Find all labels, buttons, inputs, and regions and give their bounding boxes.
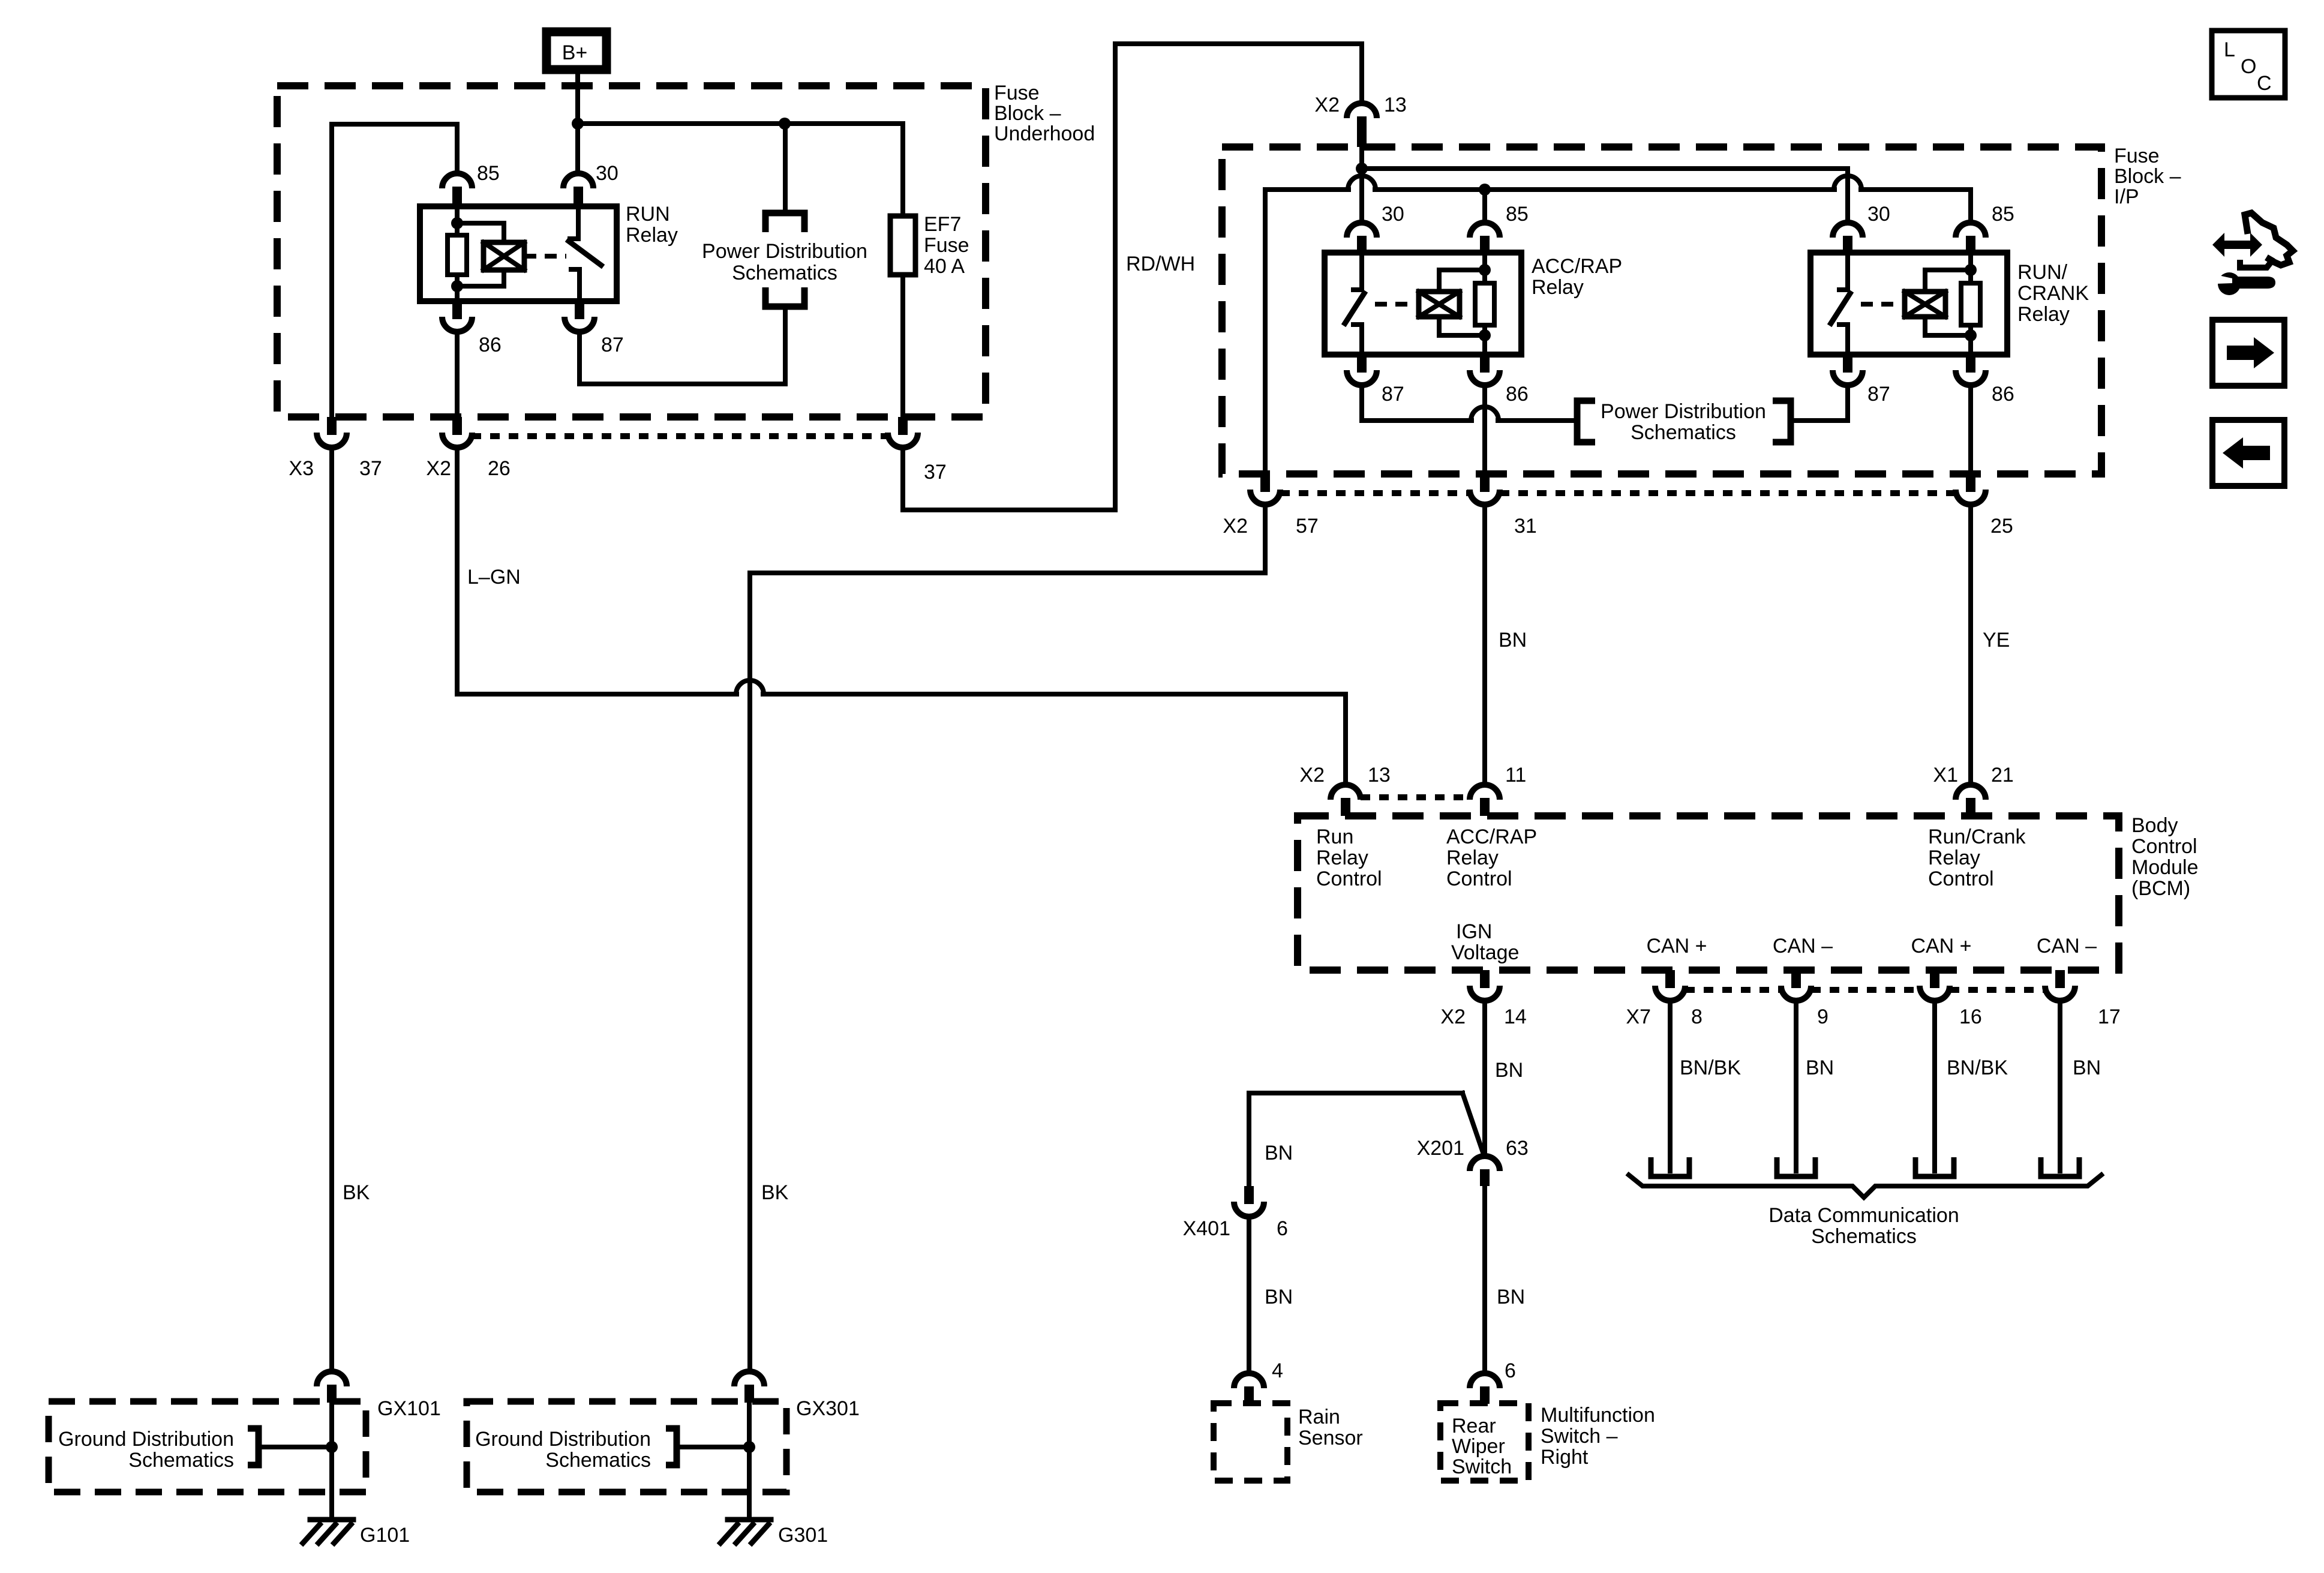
connector pin 31 (1470, 474, 1500, 505)
relay K3 pin 86 connector (1956, 355, 1986, 385)
svg-text:Voltage: Voltage (1451, 941, 1519, 964)
svg-text:RD/WH: RD/WH (1126, 253, 1195, 275)
component Rear Wiper Switch dashed box (1440, 1403, 1529, 1481)
svg-text:CAN +: CAN + (1911, 935, 1971, 957)
ground distribution GX301 dashed box (467, 1401, 786, 1492)
switch contact RUN relay (569, 206, 601, 301)
svg-text:86: 86 (1992, 383, 2014, 406)
svg-text:16: 16 (1959, 1005, 1982, 1028)
ground distribution GX101 dashed box (49, 1401, 366, 1492)
wire BN X401 to rain sensor (1247, 1217, 1251, 1371)
wire riser to connector X2-57 (1263, 190, 1268, 474)
svg-text:RUN/: RUN/ (2017, 261, 2068, 284)
wire CAN BN/BK at 2784 (1668, 1001, 1673, 1171)
label Body Control Module (BCM) (2131, 814, 2199, 900)
svg-text:Multifunction: Multifunction (1541, 1404, 1655, 1427)
svg-text:85: 85 (1506, 203, 1529, 226)
terminal data link connector (1651, 1157, 1689, 1176)
relay U1 pin 86 connector (442, 301, 472, 332)
connector X2 pin 57 (1250, 474, 1280, 505)
wire CAN BN at 2994 (1794, 1001, 1798, 1171)
svg-text:13: 13 (1368, 764, 1391, 786)
connector pin 11 BCM (1470, 785, 1500, 816)
power symbol B+ battery feed (547, 32, 606, 70)
svg-text:Sensor: Sensor (1298, 1427, 1363, 1449)
label EF7 Fuse 40 A (924, 213, 969, 278)
connector X2 pin 14 (1470, 970, 1500, 1001)
svg-text:Relay: Relay (626, 224, 678, 247)
brace data communication group (1627, 1173, 2103, 1197)
actuator dashed link RUN relay (524, 254, 566, 259)
svg-text:26: 26 (488, 457, 511, 480)
relay K2 ACC/RAP body (1325, 253, 1521, 355)
svg-text:Power Distribution: Power Distribution (1601, 400, 1766, 423)
svg-text:Fuse: Fuse (2114, 145, 2160, 167)
resistor R2 inside ACC/RAP relay (1475, 283, 1494, 325)
svg-text:85: 85 (1992, 203, 2014, 226)
svg-text:40 A: 40 A (924, 255, 965, 278)
connector X201 pin 63 (1470, 1156, 1500, 1186)
fuse EF7 40 A (890, 124, 915, 417)
relay K3 pin 87 connector (1833, 355, 1863, 385)
label RUN/CRANK Relay (2017, 261, 2089, 326)
label Fuse Block - I/P (2114, 145, 2181, 208)
svg-text:Run: Run (1316, 825, 1353, 848)
coil branch wire ACC/RAP (1482, 253, 1487, 355)
svg-text:Block –: Block – (994, 102, 1061, 125)
svg-text:Switch –: Switch – (1541, 1425, 1618, 1448)
label Rain Sensor (1298, 1406, 1363, 1449)
terminal data link connector (1777, 1157, 1815, 1176)
svg-text:37: 37 (359, 457, 382, 480)
wire RUN/CRANK 87 to bracket (1791, 386, 1848, 421)
off-page reference Ground Distribution Schematics right (475, 1428, 749, 1472)
svg-text:Rain: Rain (1298, 1406, 1340, 1428)
relay K3 RUN/CRANK pin 85 connector (1956, 223, 1986, 253)
wire X2-57 to ground riser (750, 505, 1265, 1369)
fuse block - underhood dashed enclosure (277, 86, 986, 417)
wire crossover hop over BK riser (736, 680, 764, 694)
connector pin 9 (1781, 970, 1811, 1001)
svg-text:BN: BN (1265, 1286, 1293, 1308)
svg-text:21: 21 (1991, 764, 2014, 786)
svg-text:Schematics: Schematics (1811, 1225, 1917, 1248)
svg-text:GX101: GX101 (377, 1397, 441, 1420)
relay K2 ACC/RAP pin 30 connector (1347, 223, 1377, 253)
svg-text:BN: BN (1499, 629, 1527, 652)
svg-text:Relay: Relay (1316, 846, 1368, 869)
relay U1 RUN Relay body (420, 206, 617, 301)
svg-text:X3: X3 (289, 457, 314, 480)
svg-text:37: 37 (924, 461, 947, 484)
wire B+ stem to junction and relay pin 30 (575, 74, 580, 171)
svg-text:X2: X2 (1299, 764, 1325, 786)
svg-text:30: 30 (1382, 203, 1404, 226)
svg-text:Block –: Block – (2114, 165, 2181, 188)
svg-text:B+: B+ (562, 41, 588, 64)
svg-text:Data Communication: Data Communication (1768, 1204, 1959, 1227)
wire BN from 31 to BCM 11 (1482, 505, 1487, 782)
module U2 Body Control Module dashed enclosure (1298, 816, 2119, 970)
wire branch to X401 rain sensor (1249, 1093, 1483, 1186)
ground G101 symbol (303, 1520, 353, 1543)
connector pin 16 (1920, 970, 1950, 1001)
svg-text:X2: X2 (1314, 94, 1340, 116)
label X2 13 (1299, 764, 1390, 786)
node junctions ACC/RAP coil (1479, 264, 1491, 276)
wire crossover hop at X2-13 riser (1348, 176, 1376, 190)
svg-text:X2: X2 (1440, 1005, 1466, 1028)
svg-text:L: L (2224, 38, 2235, 61)
switch contact ACC/RAP relay (1345, 253, 1364, 355)
svg-text:Module: Module (2131, 856, 2199, 879)
wire branch to ACC/RAP pin 85 (1482, 190, 1487, 220)
svg-text:CAN –: CAN – (1773, 935, 1833, 957)
actuator dashed link RUN/CRANK (1861, 302, 1899, 307)
off-page reference Power Distribution Schematics (underhood) (702, 124, 867, 307)
label X2 14 (1440, 1005, 1526, 1028)
label RUN Relay (626, 203, 678, 247)
icon arrow left box (2212, 420, 2284, 486)
connector GX101 (317, 1371, 347, 1403)
label Data Communication Schematics (1768, 1204, 1959, 1248)
terminal data link connector (2041, 1157, 2079, 1176)
svg-text:O: O (2241, 55, 2256, 78)
svg-text:Power Distribution: Power Distribution (702, 240, 867, 263)
wire pin 86 to connector X2-26 (455, 332, 460, 417)
label Multifunction Switch - Right (1541, 1404, 1655, 1469)
svg-text:Relay: Relay (1928, 846, 1980, 869)
wire crossover hop over pin 86 wire (1471, 407, 1499, 421)
relay U1 RUN Relay pin 85 connector (442, 173, 472, 206)
connector rear wiper pin 6 (1470, 1373, 1500, 1404)
svg-text:BN/BK: BN/BK (1947, 1056, 2008, 1079)
svg-text:(BCM): (BCM) (2131, 877, 2190, 900)
node coil top junction (451, 217, 463, 229)
wire X2-13 into bus (1359, 147, 1364, 220)
wire YE from 25 to BCM X1-21 (1968, 505, 1973, 782)
node coil bottom junction (451, 280, 463, 292)
svg-text:6: 6 (1277, 1217, 1288, 1240)
label IGN Voltage (1451, 920, 1519, 964)
svg-text:BN: BN (1497, 1286, 1525, 1308)
svg-text:Schematics: Schematics (545, 1449, 651, 1472)
wire GX101 through box (329, 1403, 334, 1520)
node junction ACC/RAP 85 branch (1479, 184, 1491, 196)
connector pin 25 (1956, 474, 1986, 505)
label X2 26 (426, 457, 510, 480)
wire BN from X2-14 down to X201 (1482, 1001, 1487, 1154)
svg-text:C: C (2257, 72, 2272, 95)
svg-text:CAN –: CAN – (2037, 935, 2097, 957)
svg-text:Switch: Switch (1452, 1455, 1512, 1478)
svg-text:GX301: GX301 (796, 1397, 860, 1420)
svg-text:Control: Control (1928, 867, 1994, 890)
relay K3 RUN/CRANK pin 30 connector (1833, 223, 1863, 253)
icon arrow right box (2212, 320, 2284, 386)
svg-text:9: 9 (1817, 1005, 1828, 1028)
svg-text:RUN: RUN (626, 203, 670, 226)
label X401 6 (1183, 1217, 1288, 1240)
svg-text:X201: X201 (1417, 1137, 1464, 1160)
svg-text:ACC/RAP: ACC/RAP (1446, 825, 1537, 848)
component Rain Sensor dashed box (1214, 1403, 1287, 1481)
svg-text:Underhood: Underhood (994, 122, 1095, 145)
relay K2 pin 87 connector (1347, 355, 1377, 385)
svg-text:BN: BN (1265, 1142, 1293, 1164)
svg-text:X1: X1 (1933, 764, 1958, 786)
svg-text:11: 11 (1505, 764, 1526, 786)
wire RD/WH from EF7 to fuse block I/P (903, 44, 1362, 510)
svg-text:13: 13 (1384, 94, 1407, 116)
svg-text:Wiper: Wiper (1452, 1435, 1505, 1458)
coil branch wire RUN/CRANK (1968, 253, 1973, 355)
svg-text:87: 87 (1382, 383, 1404, 406)
connector X1 pin 21 BCM (1956, 785, 1986, 816)
svg-text:YE: YE (1983, 629, 2010, 652)
label X201 63 (1417, 1137, 1529, 1160)
label ACC/RAP Relay (1532, 255, 1622, 299)
label X7 8 (1626, 1005, 1703, 1028)
svg-text:CRANK: CRANK (2017, 282, 2089, 305)
label Run Relay Control (1316, 825, 1382, 890)
svg-text:86: 86 (1506, 383, 1529, 406)
svg-text:X401: X401 (1183, 1217, 1230, 1240)
relay K2 pin 86 connector (1470, 355, 1500, 385)
wire ACC/RAP 86 to connector 31 (1482, 386, 1487, 474)
svg-text:6: 6 (1505, 1359, 1516, 1382)
wire CAN BN/BK at 3225 (1932, 1001, 1937, 1171)
svg-text:L–GN: L–GN (467, 566, 521, 589)
svg-text:Body: Body (2131, 814, 2178, 837)
svg-text:30: 30 (596, 162, 618, 185)
actuator dashed link ACC/RAP (1375, 302, 1413, 307)
wire bus to RUN/CRANK relay pin 30 (1362, 169, 1848, 220)
wire L-GN from X2-26 to BCM X2-13 (457, 448, 1346, 782)
wire ACC/RAP 87 to power distribution bracket (1362, 386, 1574, 421)
relay K2 ACC/RAP pin 85 connector (1470, 223, 1500, 253)
svg-text:Schematics: Schematics (1631, 421, 1736, 444)
svg-text:BN: BN (1806, 1056, 1834, 1079)
svg-text:I/P: I/P (2114, 185, 2139, 208)
svg-text:4: 4 (1272, 1359, 1283, 1382)
resistor R3 inside RUN/CRANK relay (1961, 283, 1980, 325)
icon LOC legend box (2212, 31, 2285, 98)
svg-text:17: 17 (2098, 1005, 2121, 1028)
svg-text:8: 8 (1691, 1005, 1703, 1028)
off-page reference Power Distribution Schematics (I/P) (1577, 400, 1791, 444)
node junction GX301 (743, 1441, 755, 1453)
svg-text:Control: Control (1316, 867, 1382, 890)
svg-text:BN: BN (1495, 1059, 1523, 1082)
connector X2 pin 26 (442, 417, 472, 448)
svg-text:Ground Distribution: Ground Distribution (58, 1428, 234, 1451)
node junctions RUN/CRANK coil (1965, 264, 1977, 276)
svg-text:X2: X2 (1223, 515, 1248, 538)
connector row dotted line underhood (472, 433, 888, 439)
connector row dotted line BCM top (1361, 794, 1471, 800)
connector rain sensor pin 4 (1234, 1373, 1264, 1404)
node junction to power distribution stem (779, 118, 791, 130)
svg-text:Fuse: Fuse (924, 234, 969, 257)
connector GX301 (734, 1371, 764, 1403)
label Run/Crank Relay Control (1928, 825, 2026, 890)
resistor R1 inside RUN relay (448, 235, 467, 275)
svg-text:63: 63 (1506, 1137, 1529, 1160)
connector X7 pin 8 (1655, 970, 1685, 1001)
connector X401 pin 6 (1234, 1186, 1264, 1217)
svg-text:25: 25 (1990, 515, 2013, 538)
svg-text:Schematics: Schematics (732, 262, 837, 284)
coil K3 of RUN/CRANK relay (1905, 292, 1945, 317)
label X3 37 (289, 457, 382, 480)
svg-text:Fuse: Fuse (994, 82, 1040, 104)
svg-text:85: 85 (477, 162, 500, 185)
svg-text:87: 87 (1867, 383, 1890, 406)
label X2 13 (1314, 94, 1406, 116)
svg-text:Control: Control (2131, 835, 2197, 858)
node junction feed RUN/CRANK 30 (1356, 163, 1368, 175)
connector pin 17 (2045, 970, 2075, 1001)
coil K2 connections (1439, 270, 1485, 335)
wire RUN/CRANK 86 to connector 25 (1968, 386, 1973, 474)
terminal data link connector (1915, 1157, 1954, 1176)
wire relay 85 feed to X3-37 (332, 124, 457, 417)
label ACC/RAP Relay Control (1446, 825, 1537, 890)
relay U1 RUN Relay pin 30 connector (563, 173, 593, 206)
wire CAN BN at 3434 (2058, 1001, 2062, 1171)
svg-text:31: 31 (1514, 515, 1537, 538)
svg-text:14: 14 (1504, 1005, 1527, 1028)
svg-text:30: 30 (1867, 203, 1890, 226)
wire pin 87 to power distribution bracket (580, 307, 785, 384)
node junction B+ distribution (572, 118, 584, 130)
svg-text:Run/Crank: Run/Crank (1928, 825, 2026, 848)
svg-text:Control: Control (1446, 867, 1512, 890)
svg-text:BN/BK: BN/BK (1680, 1056, 1741, 1079)
relay U1 pin 87 connector (565, 301, 594, 332)
connector fuse EF7 output pin 37 (888, 417, 918, 448)
svg-text:Schematics: Schematics (128, 1449, 234, 1472)
off-page reference Ground Distribution Schematics left (58, 1428, 332, 1472)
svg-text:CAN +: CAN + (1646, 935, 1707, 957)
node junction GX101 (326, 1441, 338, 1453)
fuse block - I/P dashed enclosure (1222, 147, 2101, 474)
svg-text:X7: X7 (1626, 1005, 1651, 1028)
switch contact RUN/CRANK relay (1831, 253, 1850, 355)
svg-text:87: 87 (601, 334, 624, 356)
connector X3 pin 37 (317, 417, 347, 448)
wire BN X201 to rear wiper switch (1482, 1186, 1487, 1371)
wire crossover hop at RUN/CRANK 30 riser (1834, 176, 1861, 190)
svg-text:Relay: Relay (1532, 276, 1584, 299)
svg-text:Ground Distribution: Ground Distribution (475, 1428, 651, 1451)
relay K3 RUN/CRANK body (1810, 253, 2007, 355)
label Fuse Block - Underhood (994, 82, 1095, 145)
coil K2 of ACC/RAP relay (1419, 292, 1460, 317)
connector row dotted line CAN (1685, 987, 2045, 993)
svg-text:G301: G301 (778, 1524, 828, 1547)
coil K3 connections (1925, 270, 1971, 335)
label X2 57 (1223, 515, 1318, 538)
svg-text:G101: G101 (360, 1524, 410, 1547)
wire BK X3-37 to GX101 (329, 448, 334, 1369)
svg-text:BK: BK (761, 1181, 789, 1204)
connector X2 pin 13 BCM (1331, 785, 1361, 816)
wire bus to EF7 fuse (578, 121, 903, 126)
label X1 21 (1933, 764, 2013, 786)
svg-text:57: 57 (1296, 515, 1319, 538)
svg-text:X2: X2 (426, 457, 451, 480)
wire bus 57 to coil feeds (1265, 190, 1971, 220)
svg-text:IGN: IGN (1456, 920, 1492, 943)
connector row dotted line I/P (1280, 490, 1956, 496)
ground G301 symbol (720, 1520, 771, 1543)
svg-text:EF7: EF7 (924, 213, 961, 236)
svg-text:Rear: Rear (1452, 1415, 1496, 1437)
icon service tool with arrows (2212, 213, 2293, 295)
label Rear Wiper Switch (1452, 1415, 1512, 1478)
svg-text:BN: BN (2073, 1056, 2101, 1079)
svg-text:Right: Right (1541, 1446, 1589, 1469)
connector X2 pin 13 fuse block I/P (1347, 103, 1377, 147)
wire GX301 through box (747, 1403, 752, 1520)
svg-text:BK: BK (343, 1181, 370, 1204)
coil K1 of RUN relay (484, 242, 524, 270)
svg-text:Relay: Relay (2017, 303, 2070, 326)
svg-text:86: 86 (479, 334, 502, 356)
svg-text:ACC/RAP: ACC/RAP (1532, 255, 1622, 278)
svg-text:Relay: Relay (1446, 846, 1499, 869)
wire coil connections (457, 223, 504, 286)
relay U1 coil branch wire left (455, 206, 460, 301)
